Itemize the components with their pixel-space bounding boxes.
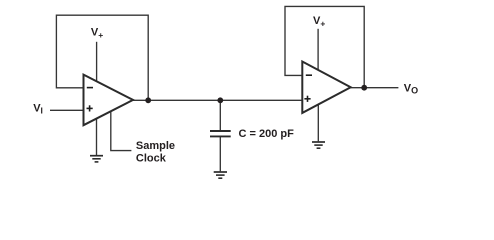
- capacitor C = 200 pF: [210, 131, 231, 136]
- svg-text:V+: V+: [313, 15, 325, 29]
- op-amp U2 (output buffer): [302, 62, 350, 113]
- wire capacitor bottom lead: [219, 137, 221, 171]
- wire sample clock pin: [111, 111, 132, 151]
- wire input VI to U1 plus input: [50, 109, 84, 111]
- wire U2 ground pin: [317, 104, 319, 141]
- svg-text:Sample: Sample: [136, 140, 175, 152]
- svg-text:Clock: Clock: [136, 153, 167, 165]
- svg-text:V+: V+: [91, 26, 103, 40]
- wire main node: U1 output to U2 plus input: [132, 99, 303, 101]
- wire feedback loop U2: output to inverting input: [285, 6, 364, 87]
- ground (capacitor): [214, 172, 227, 178]
- wire V+ pin U1: [96, 42, 98, 83]
- svg-text:C = 200 pF: C = 200 pF: [239, 128, 295, 140]
- node C junction dot (U2 output / feedback): [361, 85, 367, 91]
- wire V+ pin U2: [317, 29, 319, 71]
- wire capacitor top lead: [219, 100, 221, 130]
- ground (U2): [312, 142, 325, 148]
- node B junction dot (capacitor tap): [217, 97, 223, 103]
- op-amp U1 (input buffer): [84, 75, 134, 126]
- ground (U1): [90, 156, 103, 162]
- node A junction dot (U1 output / feedback): [145, 97, 151, 103]
- svg-text:VO: VO: [404, 82, 418, 95]
- wire U2 output to VO: [349, 87, 398, 89]
- svg-text:VI: VI: [33, 102, 43, 115]
- wire feedback loop U1: output to inverting input: [56, 15, 148, 100]
- wire U1 ground pin: [96, 118, 98, 156]
